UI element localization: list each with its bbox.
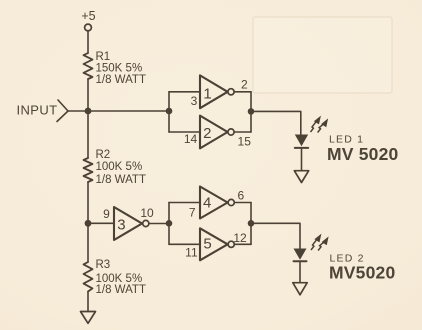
inverter gate 5	[200, 228, 228, 260]
inverter gate 4	[200, 187, 228, 219]
ground (bottom of divider)	[81, 312, 96, 324]
svg-text:11: 11	[185, 246, 198, 260]
svg-text:1/8 WATT: 1/8 WATT	[96, 174, 146, 186]
ghost box (bleed-through)	[253, 17, 392, 93]
svg-text:12: 12	[233, 231, 247, 245]
svg-text:2: 2	[241, 78, 248, 92]
svg-text:INPUT: INPUT	[17, 102, 58, 117]
wire joining outputs lower	[250, 203, 252, 245]
wire joining outputs	[250, 92, 252, 132]
wire gate 5 output pin 12	[234, 243, 251, 245]
wire to gate 1 input pin 3	[169, 91, 200, 93]
ground (LED 1)	[294, 171, 308, 183]
svg-text:15: 15	[238, 135, 252, 149]
LED D1 triangle	[295, 135, 308, 147]
LED 1 cathode bar	[295, 147, 308, 149]
svg-text:150K 5%: 150K 5%	[96, 62, 143, 74]
LED 2 light arrows	[311, 235, 328, 251]
node B junction	[85, 220, 92, 227]
input terminal chevron	[57, 100, 68, 122]
svg-text:1/8 WATT: 1/8 WATT	[96, 284, 146, 296]
svg-text:1/8 WATT: 1/8 WATT	[96, 74, 146, 86]
svg-text:3: 3	[191, 94, 198, 108]
+5 supply terminal	[85, 24, 92, 31]
wire gate 3 output pin 10 to branch D	[149, 223, 169, 225]
wire node C to LED 1	[251, 111, 301, 134]
wire to gate 2 input pin 14	[169, 131, 200, 133]
svg-text:MV 5020: MV 5020	[327, 144, 399, 164]
wire LED 2 to ground	[299, 262, 301, 283]
wire R3 to ground	[87, 292, 89, 312]
wire to gate 4 input pin 7	[169, 202, 200, 204]
svg-text:1: 1	[203, 85, 211, 102]
wire gate 2 output pin 15	[234, 131, 251, 133]
wire node E to LED 2	[251, 223, 300, 248]
svg-text:R1: R1	[96, 51, 111, 63]
wire branch D verticals to gates 4,5	[168, 203, 170, 245]
LED D2 triangle	[294, 249, 307, 260]
inverter gate 1	[200, 75, 228, 108]
svg-text:6: 6	[237, 188, 244, 202]
wire +5 to R1	[87, 31, 89, 53]
wire input to branch A	[68, 110, 169, 112]
svg-text:MV5020: MV5020	[329, 262, 395, 282]
resistor R2	[84, 158, 93, 182]
wire branch A verticals to gates 1,2	[168, 92, 170, 132]
node A junction	[166, 108, 173, 115]
wire gate 1 output pin 2	[234, 91, 251, 93]
ground (LED 2)	[293, 283, 307, 295]
svg-text:14: 14	[184, 132, 198, 146]
node: input junction	[85, 108, 92, 115]
wire node B to gate 3 input pin 9	[88, 222, 114, 224]
inverter gate 3	[114, 207, 142, 240]
svg-text:10: 10	[140, 206, 154, 220]
LED 1 light arrows	[311, 117, 328, 133]
svg-text:R2: R2	[96, 149, 111, 161]
svg-text:7: 7	[189, 206, 196, 220]
inverter gate 2	[200, 116, 228, 149]
svg-text:5: 5	[203, 235, 211, 252]
wire gate 4 output pin 6	[234, 202, 251, 204]
svg-text:+5: +5	[81, 9, 95, 23]
wire to gate 5 input pin 11	[169, 243, 200, 245]
node D junction	[166, 220, 173, 227]
svg-text:2: 2	[203, 125, 211, 142]
svg-text:100K 5%: 100K 5%	[96, 161, 143, 173]
LED 2 cathode bar	[294, 260, 307, 262]
wire LED 1 to ground	[301, 149, 303, 171]
svg-text:3: 3	[117, 217, 125, 234]
wire R1 to R2 (through input node)	[87, 79, 89, 158]
wire R2 to R3 (through node B)	[87, 182, 89, 262]
svg-text:R3: R3	[96, 259, 111, 271]
resistor R1	[84, 53, 93, 79]
svg-text:9: 9	[103, 207, 110, 221]
svg-text:4: 4	[203, 194, 211, 211]
resistor R3	[84, 262, 93, 292]
node C junction	[248, 108, 255, 115]
node E junction	[248, 220, 255, 227]
